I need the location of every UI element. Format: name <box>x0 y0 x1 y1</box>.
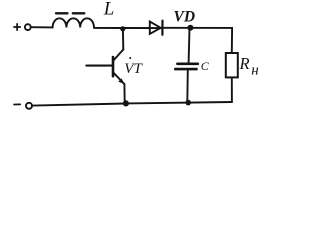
diode VD triangle (anode) <box>150 22 161 34</box>
wire: plus terminal to inductor <box>32 26 53 28</box>
input terminal (bottom, circle) <box>26 103 32 109</box>
capacitor C bottom plate <box>175 68 196 71</box>
capacitor C top lead <box>188 28 191 63</box>
node: junction dot at output node (cap top) <box>187 25 193 31</box>
wire: collector node down to transistor <box>122 29 124 50</box>
node: junction dot at emitter node on bottom rail <box>123 100 129 106</box>
transistor VT emitter lead with arrow <box>114 73 125 84</box>
svg-text:C: C <box>201 59 210 73</box>
capacitor C top plate <box>177 62 197 65</box>
inductor L (winding) <box>53 18 94 27</box>
transistor VT base lead <box>86 65 112 67</box>
inductor L core dashes <box>56 12 84 14</box>
diode VD cathode bar <box>161 21 163 35</box>
wire: inductor to collector node <box>94 27 162 29</box>
transistor VT collector lead <box>114 50 124 61</box>
terminal label minus <box>14 103 20 105</box>
resistor RH body <box>226 53 238 77</box>
wire: bottom rail <box>33 102 232 106</box>
node: junction dot at collector node <box>120 26 125 31</box>
speck above VT label <box>129 57 131 59</box>
transistor VT emitter arrowhead <box>118 78 124 84</box>
svg-text:VD: VD <box>174 9 196 26</box>
wire: emitter down to bottom rail <box>123 84 125 103</box>
svg-text:н: н <box>251 63 258 79</box>
svg-text:VT: VT <box>124 61 143 77</box>
svg-text:R: R <box>239 54 250 73</box>
input terminal (top, circle) <box>25 24 31 30</box>
wire: diode to output node and top-right corner <box>163 28 233 53</box>
capacitor C bottom lead <box>186 70 189 103</box>
wire: resistor bottom to bottom rail <box>231 77 233 102</box>
svg-text:L: L <box>103 0 115 20</box>
transistor VT base bar <box>112 57 115 76</box>
terminal label + <box>14 24 20 30</box>
node: junction dot at cap bottom <box>185 100 191 106</box>
